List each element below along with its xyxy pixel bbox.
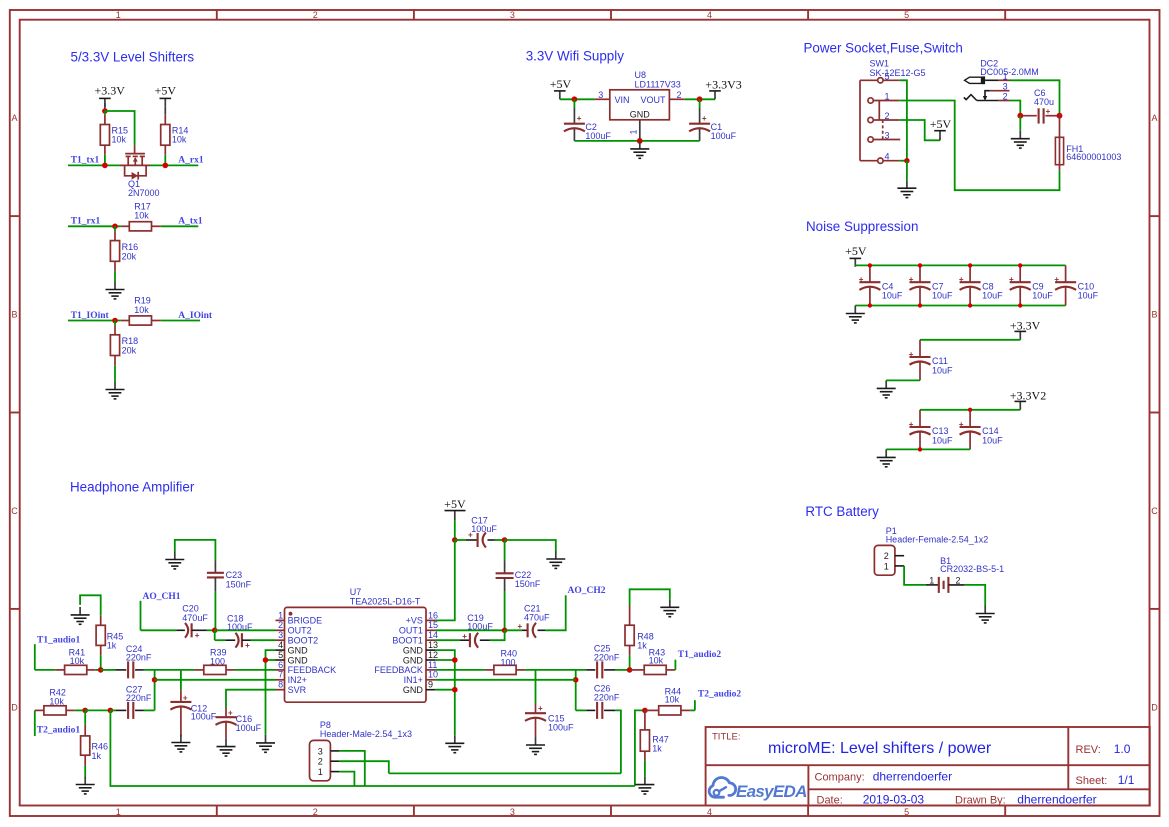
capacitor C19 xyxy=(460,613,493,648)
svg-text:IN1+: IN1+ xyxy=(404,675,423,685)
wire T1_rx1 row xyxy=(68,225,121,227)
capacitor C2 xyxy=(564,99,612,141)
svg-text:4: 4 xyxy=(885,152,890,162)
svg-text:dherrendoerfer: dherrendoerfer xyxy=(1017,793,1096,807)
svg-text:1: 1 xyxy=(929,576,934,586)
wire IN1+ row xyxy=(435,679,575,681)
power flag +3.3V2 xyxy=(1010,388,1046,410)
capacitor C18 xyxy=(225,614,253,650)
svg-text:1: 1 xyxy=(116,807,121,817)
svg-text:10uF: 10uF xyxy=(982,435,1003,445)
resistor R16 xyxy=(110,226,138,281)
power flag +5V (noise) xyxy=(845,244,867,267)
wire R39 to FEEDBACK xyxy=(235,669,276,671)
wire drop to BOOT2 row xyxy=(214,630,216,640)
node junction pin9 xyxy=(452,687,458,693)
ground DC2 xyxy=(1011,131,1030,148)
svg-text:5: 5 xyxy=(904,807,909,817)
U7 pin 10 IN1+ xyxy=(404,670,438,685)
capacitor C24 xyxy=(115,644,152,678)
wire R41 to junction xyxy=(95,669,100,671)
svg-text:10k: 10k xyxy=(134,305,149,315)
svg-text:EasyEDA: EasyEDA xyxy=(736,782,807,801)
svg-text:10k: 10k xyxy=(134,211,149,221)
node junction GND rail xyxy=(637,138,643,144)
svg-text:100uF: 100uF xyxy=(467,621,493,631)
node junction R44/R47 xyxy=(642,708,648,714)
node junction C6 right xyxy=(1057,113,1063,119)
svg-text:3: 3 xyxy=(318,746,323,756)
wire bottom rail up to R44 junction xyxy=(635,710,645,786)
power flag +5V (amp) xyxy=(444,497,466,540)
wire C21 to AO_CH2 xyxy=(545,595,565,630)
wire OUT1 row xyxy=(435,629,504,631)
svg-text:BRIGDE: BRIGDE xyxy=(288,616,323,626)
svg-text:SVR: SVR xyxy=(288,685,307,695)
wire C11 to ground xyxy=(886,379,920,381)
wire SW1 pin2 to +5V xyxy=(899,120,940,140)
svg-text:2: 2 xyxy=(955,576,960,586)
svg-text:10uF: 10uF xyxy=(932,435,953,445)
svg-text:1.0: 1.0 xyxy=(1114,742,1131,756)
svg-text:220nF: 220nF xyxy=(126,653,152,663)
svg-text:DC005-2.0MM: DC005-2.0MM xyxy=(980,67,1039,77)
U7 pin 7 IN2+ xyxy=(276,670,307,685)
svg-text:microME: Level shifters / powe: microME: Level shifters / power xyxy=(768,740,992,757)
ground R45 xyxy=(71,607,90,624)
ground C12 xyxy=(171,735,190,752)
svg-text:+5V: +5V xyxy=(930,117,952,131)
wire junction to C27 xyxy=(110,709,115,711)
svg-text:1: 1 xyxy=(885,91,890,101)
ground U8 xyxy=(630,141,649,158)
svg-text:Header-Male-2.54_1x3: Header-Male-2.54_1x3 xyxy=(320,729,412,739)
svg-text:B: B xyxy=(1151,310,1157,320)
wire FEEDBACK right row xyxy=(435,669,485,671)
svg-text:+3.3V: +3.3V xyxy=(1010,318,1041,332)
capacitor C12 xyxy=(170,670,216,737)
ground noise rail xyxy=(846,306,865,323)
net label T2_audio2 xyxy=(695,690,742,711)
wire SW1 pin5 to pin4 node xyxy=(899,80,907,160)
capacitor C11 xyxy=(909,340,953,381)
capacitor C1 xyxy=(689,99,737,141)
node junction T1_rx1/R16 xyxy=(112,224,118,230)
node junction pin5 gnd xyxy=(263,657,269,663)
svg-text:10uF: 10uF xyxy=(982,291,1003,301)
svg-text:100uF: 100uF xyxy=(711,131,737,141)
net label T1_rx1 xyxy=(71,217,101,227)
svg-text:+: + xyxy=(702,114,707,123)
svg-text:+3.3V: +3.3V xyxy=(94,84,125,98)
svg-text:T1_rx1: T1_rx1 xyxy=(71,217,101,227)
capacitor C26 xyxy=(586,684,620,719)
wire R48 top loop to ground xyxy=(630,589,670,605)
svg-text:1k: 1k xyxy=(637,641,647,651)
svg-text:100: 100 xyxy=(501,657,516,667)
node: junction +3.3V / gate xyxy=(102,108,108,114)
svg-text:SK-12E12-G5: SK-12E12-G5 xyxy=(870,68,926,78)
resistor R43 xyxy=(630,648,676,675)
wire C17 to ground drop xyxy=(505,540,556,551)
svg-text:1: 1 xyxy=(318,767,323,777)
svg-text:B: B xyxy=(11,310,17,320)
svg-text:1: 1 xyxy=(884,561,889,571)
svg-text:TITLE:: TITLE: xyxy=(712,732,741,743)
wire +VS loop xyxy=(435,540,454,620)
wire bottom rail xyxy=(855,305,1065,307)
wire P8 pin2 xyxy=(339,761,388,773)
ground B1 xyxy=(976,606,995,623)
svg-text:1: 1 xyxy=(116,10,121,20)
U8 pin 1 GND xyxy=(629,120,640,141)
op-amp U7 TEA2025L-D16-T body xyxy=(285,587,427,702)
capacitor C13 xyxy=(909,410,953,450)
wire bottom rail 2 xyxy=(886,448,970,450)
frame column numbers top xyxy=(116,10,909,20)
svg-text:4: 4 xyxy=(707,10,712,20)
svg-text:AO_CH1: AO_CH1 xyxy=(143,592,181,602)
power flag +5V (switch) xyxy=(930,117,952,140)
U7 pin 2 OUT2 xyxy=(276,620,312,635)
capacitor C21 xyxy=(518,603,551,637)
wire junction to C24 xyxy=(101,669,116,671)
svg-text:GND: GND xyxy=(403,645,424,655)
resistor R18 xyxy=(110,321,138,382)
capacitor C25 xyxy=(586,644,620,679)
U7 pin 6 FEEDBACK xyxy=(276,660,337,675)
ground C15 xyxy=(526,737,545,754)
svg-text:9: 9 xyxy=(428,680,433,690)
svg-text:5: 5 xyxy=(278,650,283,660)
net label AO_CH2 xyxy=(568,586,606,596)
svg-text:100uF: 100uF xyxy=(471,524,497,534)
wire pins 4/5 to ground xyxy=(266,650,276,735)
svg-text:BOOT1: BOOT1 xyxy=(392,636,423,646)
svg-text:SW1: SW1 xyxy=(870,59,890,69)
svg-text:Drawn By:: Drawn By: xyxy=(955,795,1006,807)
node junction pin12 xyxy=(452,657,458,663)
node junction bottom drop xyxy=(108,708,114,714)
frame side ticks xyxy=(10,216,1160,609)
wire C24 to R39 xyxy=(144,669,195,671)
svg-text:D: D xyxy=(11,703,18,713)
svg-text:A_IOint: A_IOint xyxy=(178,311,213,321)
svg-text:10uF: 10uF xyxy=(932,291,953,301)
svg-text:Noise Suppression: Noise Suppression xyxy=(806,219,918,234)
svg-text:GND: GND xyxy=(288,655,309,665)
capacitor C16 xyxy=(216,708,262,739)
svg-text:+: + xyxy=(245,641,250,650)
svg-text:1: 1 xyxy=(1003,71,1008,81)
resistor R19 xyxy=(121,296,161,326)
svg-text:+: + xyxy=(195,631,200,640)
net label A_IOint xyxy=(178,311,213,321)
svg-text:Company:: Company: xyxy=(815,772,865,784)
node junction C14 top xyxy=(968,408,972,412)
wire OUT1 to C21 xyxy=(505,629,522,631)
wire DC2 pin1 xyxy=(1010,80,1060,113)
svg-text:220nF: 220nF xyxy=(594,652,620,662)
net label T1_tx1 xyxy=(71,156,100,166)
wire +3.3V2 rail xyxy=(920,409,1020,411)
node junction IN2+ xyxy=(152,677,158,683)
connector P1 Header-Female-2.54_1x2 xyxy=(874,526,988,575)
wire +3.3V to C11 xyxy=(920,339,1020,341)
wire long bottom rail xyxy=(110,710,635,786)
svg-text:IN2+: IN2+ xyxy=(288,675,307,685)
capacitor C6 xyxy=(1020,88,1059,124)
svg-text:20k: 20k xyxy=(122,251,137,261)
svg-text:10uF: 10uF xyxy=(1078,291,1099,301)
wire SW1 pin1 loop to fuse xyxy=(899,101,1059,191)
resistor R45 xyxy=(96,616,123,670)
svg-text:3: 3 xyxy=(510,10,515,20)
capacitor C8 xyxy=(959,265,1003,305)
wire C27 to vertical xyxy=(144,709,155,711)
node junction T1_IOint/R18 xyxy=(112,318,118,324)
net label T2_audio1 xyxy=(35,710,81,736)
svg-text:150nF: 150nF xyxy=(226,579,252,589)
svg-text:1: 1 xyxy=(278,610,283,620)
svg-text:3: 3 xyxy=(278,630,283,640)
node junction A_rx1/R14 xyxy=(163,163,169,169)
node junction C17/C22 xyxy=(502,537,508,543)
U8 pin 2 VOUT xyxy=(669,90,684,100)
svg-text:Header-Female-2.54_1x2: Header-Female-2.54_1x2 xyxy=(886,535,989,545)
wire +5V to VIN xyxy=(560,98,595,100)
svg-text:6: 6 xyxy=(278,660,283,670)
svg-text:100uF: 100uF xyxy=(548,723,574,733)
svg-text:15: 15 xyxy=(428,620,438,630)
wire AO_CH1 row xyxy=(141,629,177,631)
connector DC2 DC005-2.0MM xyxy=(964,59,1039,102)
title block outline xyxy=(706,727,1150,806)
svg-text:T1_audio2: T1_audio2 xyxy=(678,650,722,660)
svg-text:7: 7 xyxy=(278,670,283,680)
svg-text:A_tx1: A_tx1 xyxy=(178,217,203,227)
svg-text:T1_tx1: T1_tx1 xyxy=(71,156,100,166)
resistor R44 xyxy=(645,687,695,715)
U7 pin 4 GND xyxy=(276,640,309,655)
wire C26 drop to middle rail xyxy=(615,710,621,773)
resistor R48 xyxy=(625,606,654,670)
node junction C2/VIN xyxy=(572,96,578,102)
U7 pin 15 OUT1 xyxy=(399,620,438,635)
svg-text:GND: GND xyxy=(630,110,651,120)
wire IN2+ row xyxy=(155,679,276,681)
svg-text:T2_audio2: T2_audio2 xyxy=(698,690,742,700)
svg-text:AO_CH2: AO_CH2 xyxy=(568,586,606,596)
ground pins45 xyxy=(256,735,275,752)
resistor R46 xyxy=(81,710,108,776)
ground SW1 xyxy=(897,180,916,197)
wire C18 to BOOT2 xyxy=(251,639,276,641)
wire junction to junction xyxy=(85,709,110,711)
resistor R40 xyxy=(485,649,525,675)
net label T1_IOint xyxy=(71,311,110,321)
svg-text:11: 11 xyxy=(428,660,437,670)
svg-text:2: 2 xyxy=(885,111,890,121)
svg-text:A: A xyxy=(11,113,17,123)
svg-text:10k: 10k xyxy=(172,135,187,145)
frame row letters left xyxy=(11,113,18,713)
svg-text:GND: GND xyxy=(288,645,309,655)
svg-text:FEEDBACK: FEEDBACK xyxy=(374,665,423,675)
wire SW1 pin4 xyxy=(899,160,907,162)
wire to SW1 ground xyxy=(906,161,908,181)
wire pin13/12/9 ground bus xyxy=(435,650,454,735)
battery B1 CR2032-BS-5-1 xyxy=(926,556,1004,593)
svg-text:2: 2 xyxy=(884,551,889,561)
capacitor C15 xyxy=(525,670,574,737)
svg-text:5/3.3V Level Shifters: 5/3.3V Level Shifters xyxy=(71,50,195,65)
node junction IN1+ xyxy=(573,677,579,683)
svg-text:470uF: 470uF xyxy=(182,613,208,623)
capacitor C4 xyxy=(859,265,903,305)
svg-text:220nF: 220nF xyxy=(126,693,152,703)
svg-text:GND: GND xyxy=(403,685,424,695)
svg-text:2: 2 xyxy=(313,10,318,20)
connector P8 Header-Male-2.54_1x3 xyxy=(310,720,412,781)
power flag +3.3V xyxy=(94,84,125,112)
svg-text:C: C xyxy=(1151,506,1158,516)
wire VOUT to +3.3V3 xyxy=(685,98,715,100)
wire C20 to junction xyxy=(207,629,215,631)
wire vertical C24/C27 link xyxy=(154,670,156,711)
power flag +5V (R14) xyxy=(155,84,177,115)
capacitor C23 xyxy=(207,561,252,631)
svg-text:+: + xyxy=(577,114,582,123)
wire bottom rail C2-C1 xyxy=(574,140,699,142)
transistor Q1 2N7000 xyxy=(120,145,160,198)
net label T1_audio2 xyxy=(675,650,721,670)
svg-text:2: 2 xyxy=(676,90,681,100)
svg-text:1k: 1k xyxy=(92,751,102,761)
node junction OUT1/C22 xyxy=(502,628,508,634)
svg-text:100uF: 100uF xyxy=(585,131,611,141)
capacitor C22 xyxy=(496,540,541,630)
svg-text:64600001003: 64600001003 xyxy=(1066,152,1121,162)
svg-text:OUT1: OUT1 xyxy=(399,626,423,636)
svg-text:T1_IOint: T1_IOint xyxy=(71,311,110,321)
U7 pin 16 +VS xyxy=(406,610,438,625)
svg-text:14: 14 xyxy=(428,630,438,640)
ground top left amp xyxy=(165,552,184,569)
ground R48 xyxy=(660,599,679,616)
net label A_rx1 xyxy=(178,156,204,166)
U7 pin 8 SVR xyxy=(276,680,307,695)
svg-text:5: 5 xyxy=(904,10,909,20)
svg-text:5: 5 xyxy=(885,71,890,81)
svg-text:2: 2 xyxy=(1003,92,1008,102)
svg-text:TEA2025L-D16-T: TEA2025L-D16-T xyxy=(350,596,421,606)
node junction C1/VOUT xyxy=(697,96,703,102)
switch SW1 SK-12E12-G5 xyxy=(860,59,926,164)
ground C11 xyxy=(877,380,896,397)
fuse FH1 64600001003 xyxy=(1055,114,1121,171)
svg-text:1k: 1k xyxy=(652,744,662,754)
svg-text:Sheet:: Sheet: xyxy=(1076,775,1108,787)
svg-text:RTC Battery: RTC Battery xyxy=(805,504,879,519)
svg-text:16: 16 xyxy=(428,610,438,620)
svg-text:dherrendoerfer: dherrendoerfer xyxy=(873,770,952,784)
node junction C23/C20/OUT2 xyxy=(212,628,218,634)
svg-text:FEEDBACK: FEEDBACK xyxy=(288,665,337,675)
svg-text:4: 4 xyxy=(278,640,283,650)
svg-text:+VS: +VS xyxy=(406,616,423,626)
ground R46 xyxy=(76,777,95,794)
node junction T1_tx1/R15 xyxy=(102,163,108,169)
ground C16 xyxy=(217,739,236,756)
capacitor C17 xyxy=(455,516,505,548)
wire R42 to junction xyxy=(75,709,85,711)
wire SVR to C16 xyxy=(226,690,276,708)
frame top ticks xyxy=(217,10,1005,20)
U7 pin 11 FEEDBACK xyxy=(374,660,437,675)
ground R18 xyxy=(106,382,125,399)
EasyEDA logo xyxy=(709,778,736,798)
wire BOOT2 row left xyxy=(215,639,226,641)
svg-text:A_rx1: A_rx1 xyxy=(178,156,204,166)
node junction +5V/C17 xyxy=(452,537,458,543)
power flag +3.3V3 xyxy=(705,78,741,100)
svg-text:20k: 20k xyxy=(122,346,137,356)
wire BOOT1 row xyxy=(435,639,460,641)
svg-text:+3.3V2: +3.3V2 xyxy=(1010,388,1046,402)
svg-text:100: 100 xyxy=(210,657,225,667)
node junction R41/R45 xyxy=(98,667,104,673)
wire middle rail xyxy=(389,772,621,774)
svg-text:+5V: +5V xyxy=(845,244,867,258)
svg-text:T2_audio1: T2_audio1 xyxy=(37,725,81,735)
svg-text:+5V: +5V xyxy=(444,497,466,511)
net label T1_audio1 xyxy=(35,635,81,670)
frame column numbers bottom xyxy=(116,807,909,817)
svg-text:10k: 10k xyxy=(649,655,664,665)
svg-text:10uF: 10uF xyxy=(882,291,903,301)
net label A_tx1 xyxy=(178,217,203,227)
wire P8 pin1 xyxy=(339,772,354,786)
U7 pin 1 BRIGDE xyxy=(276,610,323,625)
svg-text:1/1: 1/1 xyxy=(1118,773,1135,787)
svg-text:100uF: 100uF xyxy=(191,711,217,721)
svg-text:T1_audio1: T1_audio1 xyxy=(37,635,81,645)
wire T1_tx1 row xyxy=(68,164,120,166)
svg-text:10k: 10k xyxy=(70,656,85,666)
capacitor C9 xyxy=(1009,265,1053,305)
svg-text:+: + xyxy=(1046,107,1051,116)
node junction SW1 pin4 xyxy=(904,158,909,163)
svg-text:10k: 10k xyxy=(49,696,64,706)
svg-text:3: 3 xyxy=(510,807,515,817)
svg-text:3: 3 xyxy=(885,130,890,140)
wire ground loop R45 xyxy=(80,595,101,616)
node junction C13 bottom xyxy=(918,447,922,451)
svg-text:3: 3 xyxy=(1003,82,1008,92)
svg-text:C: C xyxy=(11,506,18,516)
U7 pin 5 GND xyxy=(276,650,309,665)
capacitor C10 xyxy=(1054,265,1098,305)
wire battery to ground xyxy=(965,585,986,606)
wire C19 to OUT1 junction xyxy=(490,630,505,640)
power flag +5V (wifi) xyxy=(550,77,572,99)
svg-text:4: 4 xyxy=(707,807,712,817)
svg-text:2: 2 xyxy=(313,807,318,817)
svg-text:470uF: 470uF xyxy=(524,613,550,623)
wire C6 to ground xyxy=(1019,116,1021,131)
resistor R17 xyxy=(121,201,161,231)
